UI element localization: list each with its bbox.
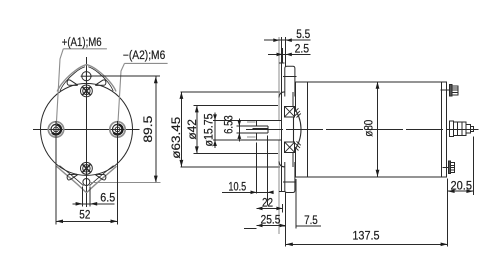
svg-text:+(A1);M6: +(A1);M6 [62,37,102,49]
svg-text:52: 52 [79,207,90,221]
svg-text:ø15.75: ø15.75 [202,113,216,146]
svg-text:6.53: 6.53 [222,115,236,134]
svg-text:25.5: 25.5 [261,213,281,227]
svg-text:10.5: 10.5 [228,180,246,194]
svg-text:22: 22 [262,196,273,210]
svg-text:ø63.45: ø63.45 [169,116,183,158]
svg-text:ø80: ø80 [361,119,375,136]
svg-text:137.5: 137.5 [352,229,379,243]
svg-text:89.5: 89.5 [141,115,155,142]
svg-text:−(A2);M6: −(A2);M6 [123,50,165,62]
svg-text:7.5: 7.5 [304,213,318,227]
svg-text:ø42: ø42 [185,119,199,140]
svg-text:20.5: 20.5 [451,178,473,192]
svg-text:2.5: 2.5 [295,41,310,55]
svg-text:5.5: 5.5 [296,27,310,41]
svg-text:6.5: 6.5 [100,191,115,205]
